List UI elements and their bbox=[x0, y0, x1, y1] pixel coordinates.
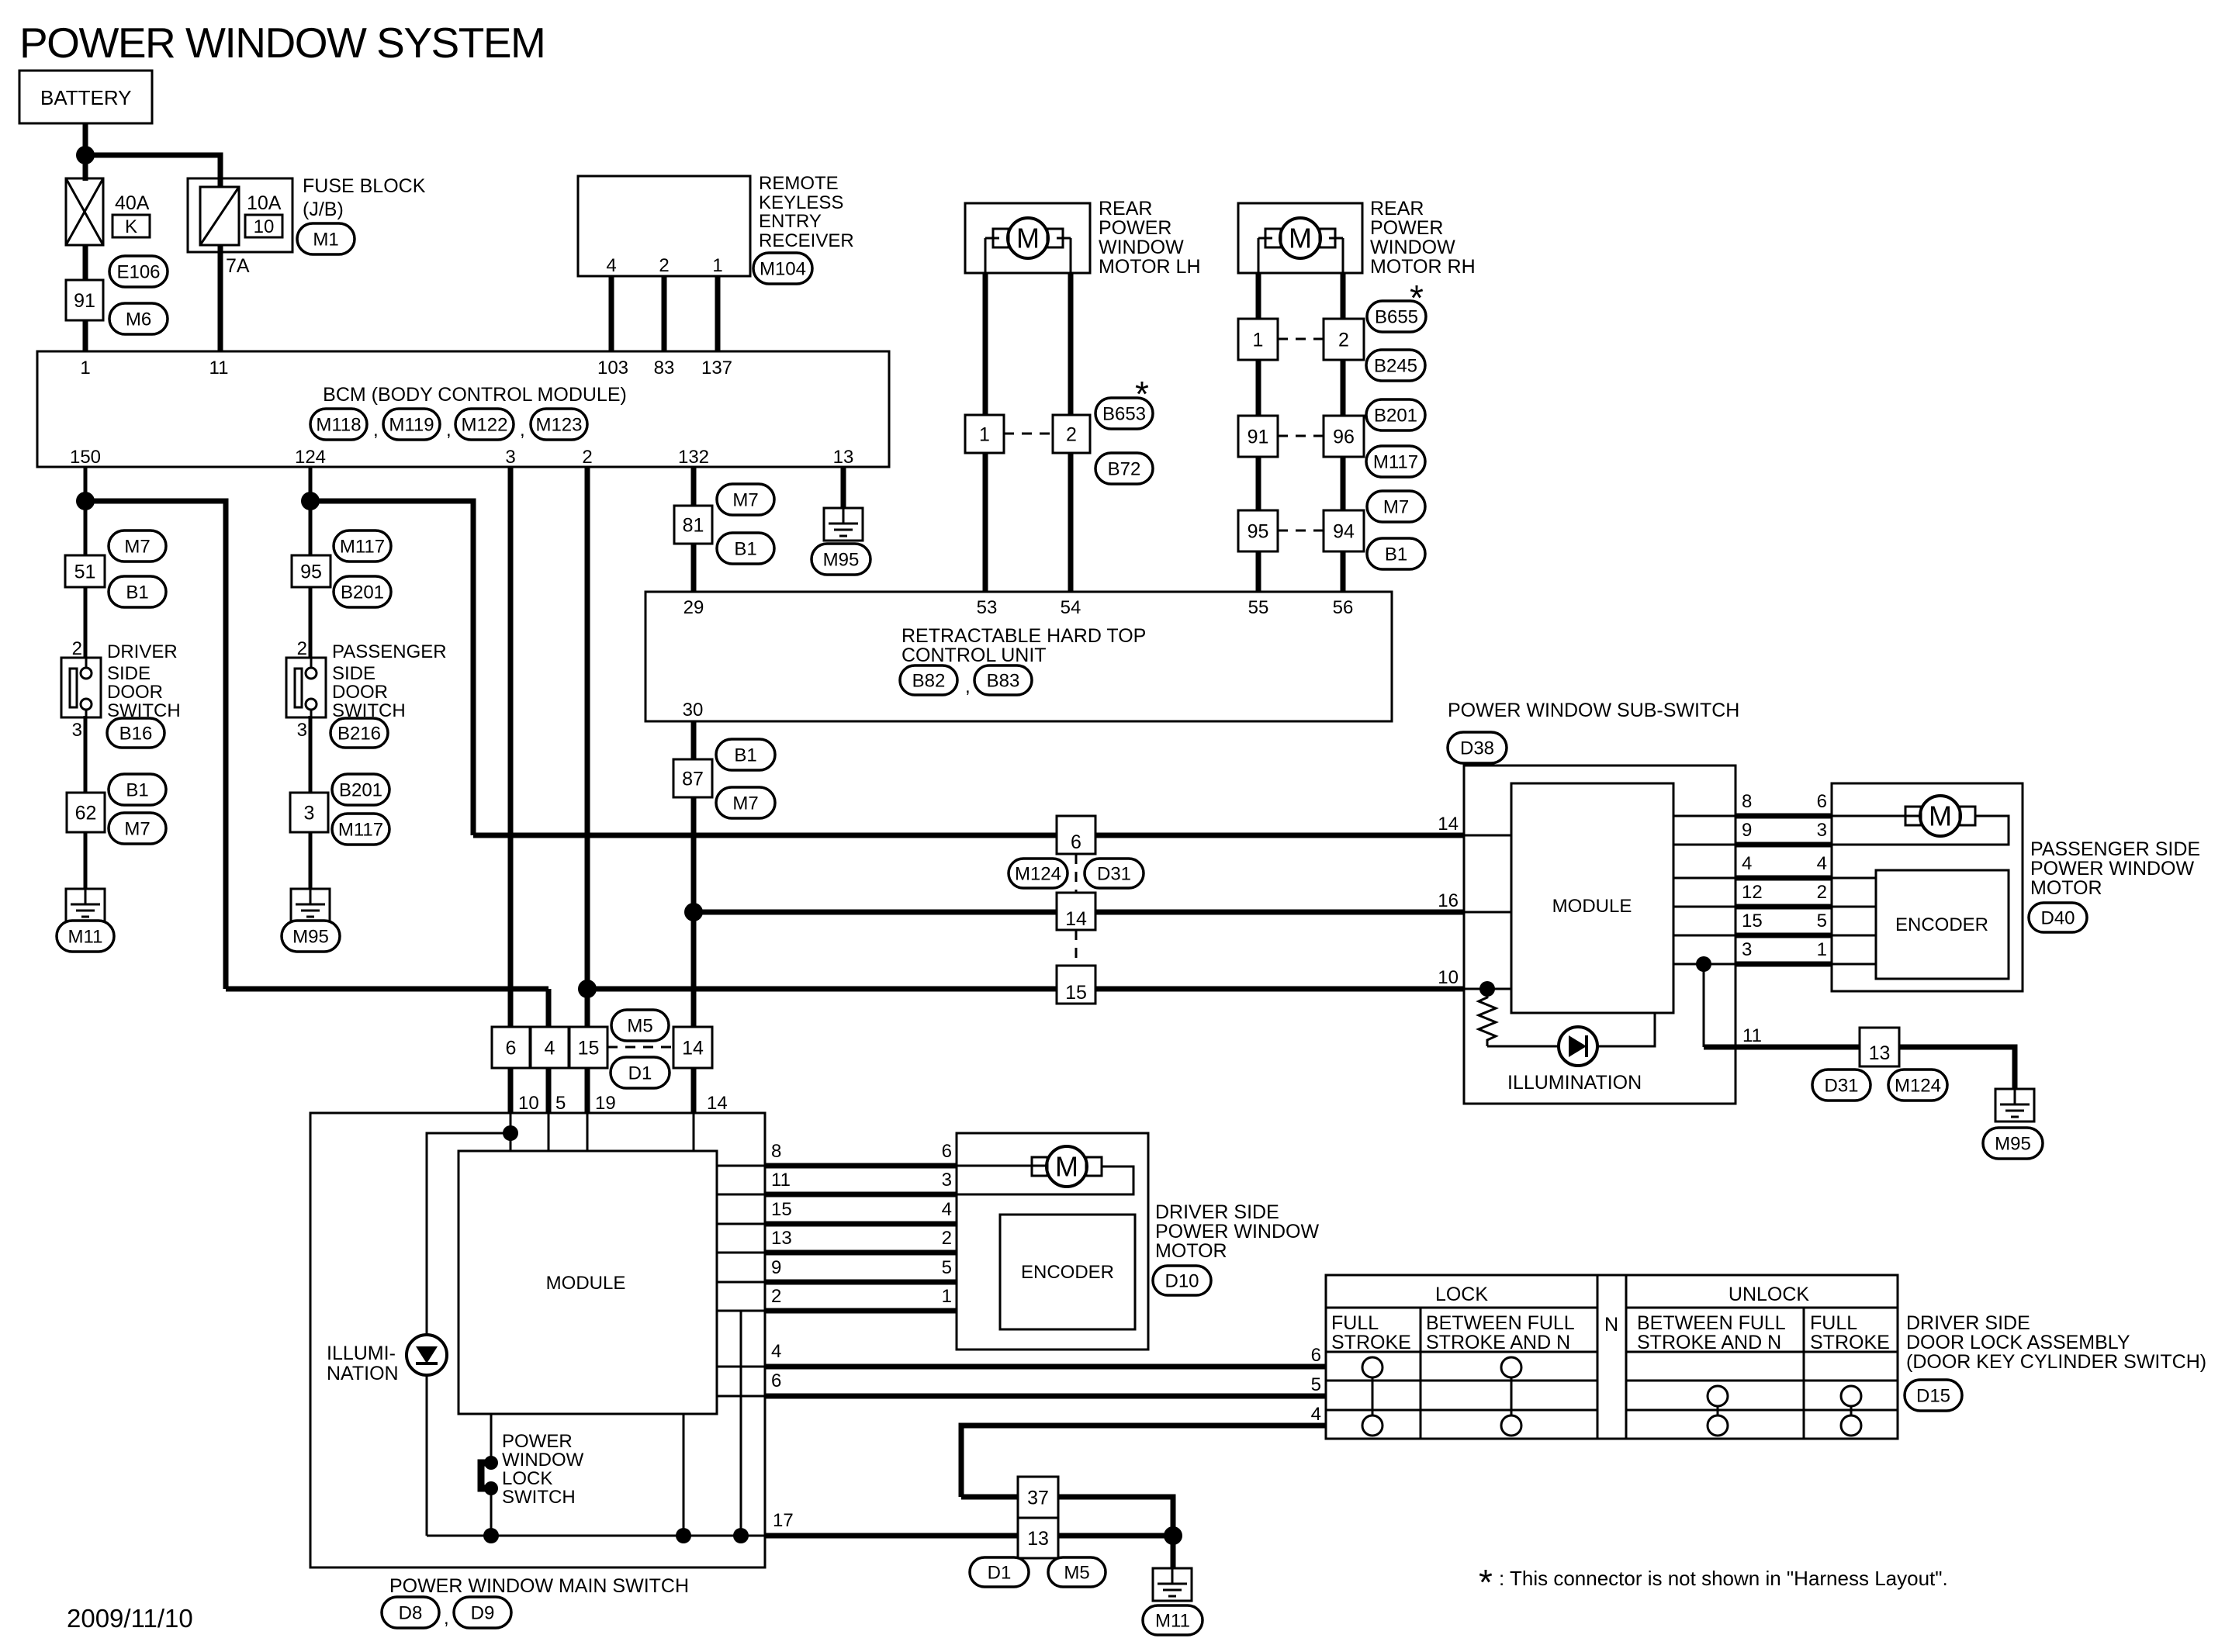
svg-text:MOTOR RH: MOTOR RH bbox=[1370, 256, 1476, 278]
svg-text:10: 10 bbox=[254, 216, 275, 237]
wire trunk y1077 124branch to subswitch pin14 bbox=[473, 833, 1464, 838]
svg-text:56: 56 bbox=[1333, 597, 1354, 618]
svg-text:M: M bbox=[1016, 223, 1040, 254]
wire main pin 2 to motor 1 bbox=[765, 1308, 957, 1314]
connector B201 bbox=[1366, 399, 1425, 430]
svg-text:MOTOR: MOTOR bbox=[1155, 1240, 1227, 1262]
connector 6 box mid bbox=[492, 1027, 530, 1068]
svg-text:1: 1 bbox=[979, 423, 990, 445]
connector 94 box RH bbox=[1324, 510, 1364, 551]
svg-text:MOTOR: MOTOR bbox=[2030, 877, 2102, 899]
svg-text:M104: M104 bbox=[760, 258, 806, 279]
svg-text:M117: M117 bbox=[1373, 451, 1418, 472]
connector 4 box mid bbox=[531, 1027, 569, 1068]
svg-text:11: 11 bbox=[771, 1170, 791, 1191]
svg-text:2: 2 bbox=[942, 1228, 952, 1249]
svg-text:M122: M122 bbox=[461, 414, 507, 435]
wire 37 to gnd node bbox=[1058, 1497, 1173, 1536]
connector E106 bbox=[109, 256, 168, 287]
svg-text:2: 2 bbox=[1338, 329, 1349, 351]
wire 62 to ground bbox=[84, 832, 88, 889]
svg-text:11: 11 bbox=[209, 358, 229, 378]
connector D15 bbox=[1905, 1380, 1962, 1411]
LED illumination sub bbox=[1559, 1027, 1597, 1066]
passenger power window motor box bbox=[1832, 783, 2023, 991]
wire motor main row2 path bbox=[957, 1166, 1133, 1194]
svg-text:B653: B653 bbox=[1102, 403, 1146, 424]
remote keyless entry receiver box bbox=[578, 176, 750, 276]
connector 14 box trunk bbox=[1057, 893, 1095, 930]
node gnd junction bbox=[1164, 1526, 1182, 1545]
svg-text:4: 4 bbox=[1742, 853, 1752, 874]
svg-text:E106: E106 bbox=[116, 261, 160, 282]
svg-text:MOTOR LH: MOTOR LH bbox=[1099, 256, 1201, 278]
wire fuse to 91 bbox=[83, 245, 88, 280]
svg-text:2: 2 bbox=[659, 255, 669, 276]
svg-text:14: 14 bbox=[1438, 814, 1459, 835]
svg-text:POWER: POWER bbox=[1370, 217, 1443, 239]
connector 95 box bbox=[292, 555, 330, 587]
connector 91 box RH bbox=[1238, 416, 1278, 457]
connector 2 box LH bbox=[1053, 415, 1090, 453]
rear power window motor RH box bbox=[1238, 203, 1362, 273]
wire bottom bus bbox=[427, 1535, 765, 1537]
svg-text:REMOTE: REMOTE bbox=[759, 173, 839, 194]
connector M117 bbox=[334, 531, 391, 562]
connector B1 bbox=[716, 739, 775, 770]
svg-text:STROKE: STROKE bbox=[1331, 1332, 1411, 1353]
svg-text:15: 15 bbox=[578, 1037, 600, 1059]
connector M7 bbox=[717, 484, 774, 515]
wire sub module row 9 to edge bbox=[1673, 844, 1735, 846]
wire branch 124 to x610 bbox=[310, 501, 473, 835]
table subheader bottom L bbox=[1326, 1351, 1597, 1353]
svg-text:1: 1 bbox=[1817, 939, 1827, 960]
wire 91 to 95 bbox=[1256, 457, 1261, 510]
connector M124 bbox=[1888, 1070, 1947, 1101]
connector 1 box RH bbox=[1238, 319, 1278, 360]
svg-text:,: , bbox=[446, 420, 452, 441]
svg-text:10: 10 bbox=[518, 1093, 539, 1114]
svg-text:POWER: POWER bbox=[1099, 217, 1171, 239]
connector 62 box bbox=[67, 793, 105, 832]
svg-text:51: 51 bbox=[74, 561, 96, 582]
svg-text:FUSE BLOCK: FUSE BLOCK bbox=[303, 175, 426, 197]
svg-text:M95: M95 bbox=[1995, 1133, 2031, 1154]
table vertical lock div bbox=[1420, 1308, 1422, 1439]
wire main module row 8 bbox=[717, 1165, 765, 1167]
svg-text:MODULE: MODULE bbox=[546, 1273, 626, 1294]
connector 96 box RH bbox=[1324, 416, 1364, 457]
wire LH2 to RHTCU54 bbox=[1068, 453, 1074, 592]
connector M124 bbox=[1009, 859, 1068, 888]
svg-text:5: 5 bbox=[1817, 911, 1827, 931]
svg-text:M123: M123 bbox=[535, 414, 582, 435]
wire sub module row 15 to edge bbox=[1673, 935, 1735, 937]
fuse 10A symbol bbox=[200, 187, 239, 245]
svg-text:3: 3 bbox=[505, 447, 515, 468]
wire receiver pin2 to BCM 83 bbox=[662, 276, 667, 351]
svg-text:STROKE AND N: STROKE AND N bbox=[1426, 1332, 1570, 1353]
svg-text:B16: B16 bbox=[119, 723, 153, 744]
connector K box bbox=[112, 215, 150, 237]
table vertical N left bbox=[1597, 1275, 1599, 1439]
svg-text:N: N bbox=[1604, 1314, 1618, 1336]
svg-text:D40: D40 bbox=[2040, 907, 2075, 928]
svg-text:10A: 10A bbox=[247, 192, 282, 214]
svg-text:ENCODER: ENCODER bbox=[1895, 914, 1988, 935]
svg-text:M7: M7 bbox=[1383, 496, 1409, 517]
connector D10 bbox=[1153, 1266, 1211, 1295]
wire sub module row 4 to edge bbox=[1673, 877, 1735, 880]
wire main module row 9 bbox=[717, 1281, 765, 1284]
svg-text:REAR: REAR bbox=[1370, 198, 1424, 219]
wire main pin 8 to motor 6 bbox=[765, 1163, 957, 1169]
connector B82 bbox=[900, 665, 957, 695]
wire branch 150 to x291 bbox=[85, 501, 226, 989]
svg-text:UNLOCK: UNLOCK bbox=[1729, 1284, 1810, 1305]
wire key cyl row4 bbox=[961, 1426, 1326, 1497]
connector 37 box bbox=[1018, 1477, 1058, 1518]
wire 3box to ground bbox=[309, 832, 313, 889]
wire switch to 62 bbox=[84, 716, 88, 793]
connector M117 bbox=[332, 814, 389, 845]
svg-text:17: 17 bbox=[773, 1510, 794, 1531]
svg-text:LOCK: LOCK bbox=[502, 1468, 552, 1489]
svg-text:PASSENGER SIDE: PASSENGER SIDE bbox=[2030, 838, 2200, 860]
svg-text:DOOR: DOOR bbox=[107, 682, 163, 703]
connector M117 bbox=[1366, 446, 1425, 477]
wire 13box to gnd node bbox=[1058, 1533, 1173, 1539]
svg-text:POWER WINDOW SYSTEM: POWER WINDOW SYSTEM bbox=[19, 19, 545, 67]
svg-text:4: 4 bbox=[1311, 1404, 1321, 1425]
wire to 37 box bbox=[961, 1495, 1018, 1500]
svg-text:6: 6 bbox=[1817, 791, 1827, 812]
svg-text:M119: M119 bbox=[389, 414, 434, 435]
node illumination tap bbox=[1479, 981, 1495, 997]
svg-text:RECEIVER: RECEIVER bbox=[759, 230, 854, 251]
connector M11 bbox=[1143, 1605, 1203, 1635]
wire main row6 lock bbox=[717, 1395, 765, 1398]
wire pin10 to module bbox=[1464, 988, 1511, 990]
wire to ground M11 bbox=[1171, 1536, 1176, 1568]
svg-text:13: 13 bbox=[1869, 1042, 1891, 1064]
svg-text:,: , bbox=[373, 420, 379, 441]
svg-text:54: 54 bbox=[1061, 597, 1081, 618]
wire 15box to main switch bbox=[585, 1068, 590, 1113]
wire 6box to main switch bbox=[508, 1068, 514, 1113]
ground M11 bbox=[66, 889, 105, 921]
wire BCM2 down to connector 15 bbox=[585, 467, 590, 1027]
svg-text:DOOR: DOOR bbox=[332, 682, 388, 703]
svg-text:9: 9 bbox=[771, 1257, 781, 1278]
svg-text:,: , bbox=[965, 676, 971, 697]
dashed connector pair RH1 bbox=[1278, 338, 1324, 340]
connector 13 box bbox=[1860, 1028, 1899, 1066]
wire 94 to RHTCU56 bbox=[1341, 551, 1346, 592]
svg-text:83: 83 bbox=[654, 358, 675, 378]
svg-text:M: M bbox=[1289, 223, 1312, 254]
svg-text:(J/B): (J/B) bbox=[303, 199, 344, 220]
svg-text:,: , bbox=[520, 420, 525, 441]
wire sub module row 3 to edge bbox=[1673, 963, 1735, 966]
table header line UNLOCK bbox=[1626, 1307, 1898, 1309]
svg-text:ENTRY: ENTRY bbox=[759, 211, 822, 232]
connector D31 bbox=[1812, 1070, 1870, 1101]
svg-text:9: 9 bbox=[1742, 820, 1752, 841]
connector D1 bbox=[611, 1057, 670, 1088]
svg-text:2: 2 bbox=[1817, 882, 1827, 903]
svg-text:D31: D31 bbox=[1097, 863, 1131, 884]
wire module to lock switch bbox=[490, 1414, 493, 1463]
svg-text:STROKE AND N: STROKE AND N bbox=[1637, 1332, 1781, 1353]
svg-text:POWER: POWER bbox=[502, 1431, 573, 1452]
svg-text:ILLUMINATION: ILLUMINATION bbox=[1507, 1072, 1642, 1094]
connector D38 bbox=[1448, 732, 1507, 763]
svg-text:DRIVER: DRIVER bbox=[107, 641, 178, 662]
resistor R-illum bbox=[1479, 989, 1496, 1046]
svg-text:M5: M5 bbox=[627, 1015, 652, 1036]
svg-text:D15: D15 bbox=[1916, 1385, 1950, 1406]
dashed connector pair RH3 bbox=[1278, 530, 1324, 532]
connector M104 bbox=[753, 253, 812, 284]
connector B1 bbox=[109, 576, 166, 607]
svg-text:M117: M117 bbox=[340, 536, 385, 557]
wire trunk y1275 pin2 to subswitch pin10 bbox=[587, 987, 1464, 992]
fusible link 40A K bbox=[66, 178, 103, 245]
svg-text:6: 6 bbox=[1071, 831, 1081, 853]
svg-text:M95: M95 bbox=[823, 549, 860, 570]
wire RH2 to 96 bbox=[1341, 360, 1346, 416]
svg-text:M11: M11 bbox=[68, 926, 103, 947]
wire illum branch bbox=[427, 1133, 510, 1335]
connector M7 bbox=[716, 787, 775, 818]
svg-text:D31: D31 bbox=[1824, 1075, 1858, 1096]
svg-text:2: 2 bbox=[582, 447, 592, 468]
driver power window motor box bbox=[957, 1133, 1148, 1350]
connector 2 box RH bbox=[1324, 319, 1364, 360]
svg-text:BCM (BODY CONTROL MODULE): BCM (BODY CONTROL MODULE) bbox=[323, 384, 627, 406]
connector M6 bbox=[109, 303, 168, 334]
table vertical unlock div bbox=[1803, 1308, 1805, 1439]
wire receiver pin1 to BCM 137 bbox=[715, 276, 721, 351]
driver side door switch S1 bbox=[61, 658, 101, 717]
svg-text:B201: B201 bbox=[1374, 405, 1417, 426]
svg-text:150: 150 bbox=[70, 447, 101, 468]
connector 15 box mid bbox=[569, 1027, 607, 1068]
svg-text:M118: M118 bbox=[316, 414, 361, 435]
wire trunk y1176 pin30 to subswitch pin16 bbox=[694, 910, 1464, 915]
main switch module box bbox=[459, 1151, 717, 1414]
wire pin17 bbox=[765, 1533, 1018, 1539]
wire BCM124 down bbox=[309, 467, 313, 555]
connector 14 box mid bbox=[673, 1027, 712, 1068]
wire BCM3 down to connector 6 bbox=[508, 467, 514, 1027]
wire BCM132 down bbox=[691, 467, 697, 506]
connector D1 bbox=[970, 1557, 1029, 1587]
ground M11 main bbox=[1153, 1568, 1192, 1601]
wire branch to fuse block bbox=[85, 155, 220, 187]
svg-text:3: 3 bbox=[297, 720, 307, 741]
svg-text:M124: M124 bbox=[1895, 1075, 1941, 1096]
svg-text:B1: B1 bbox=[734, 745, 756, 766]
connector B1 bbox=[1367, 538, 1425, 569]
svg-text:95: 95 bbox=[1248, 520, 1269, 542]
switch contacts lock full bbox=[1362, 1357, 1383, 1377]
svg-text:1: 1 bbox=[1253, 329, 1264, 351]
svg-text:10: 10 bbox=[1438, 967, 1459, 988]
svg-text:B83: B83 bbox=[987, 670, 1020, 691]
wire 51 to door switch bbox=[84, 587, 88, 659]
svg-text:D38: D38 bbox=[1460, 738, 1494, 759]
svg-text:1: 1 bbox=[942, 1286, 952, 1307]
power window main switch box bbox=[310, 1113, 765, 1567]
wire fuse block to BCM pin 11 bbox=[218, 245, 223, 351]
wire 13 box to ground bbox=[1899, 1047, 2015, 1089]
svg-text:M117: M117 bbox=[338, 819, 383, 840]
svg-text:D1: D1 bbox=[628, 1063, 652, 1083]
svg-text:55: 55 bbox=[1248, 597, 1269, 618]
svg-text:6: 6 bbox=[942, 1141, 952, 1162]
svg-text:MODULE: MODULE bbox=[1552, 896, 1632, 917]
wire lock switch to bus bbox=[490, 1488, 493, 1536]
svg-text:14: 14 bbox=[1065, 908, 1087, 930]
svg-text:WINDOW: WINDOW bbox=[1099, 237, 1184, 258]
ground M95 bbox=[291, 889, 330, 921]
connector B655 bbox=[1367, 301, 1426, 332]
svg-text:BATTERY: BATTERY bbox=[40, 86, 132, 109]
wire BCM150 down bbox=[84, 467, 88, 555]
svg-text:PASSENGER: PASSENGER bbox=[332, 641, 447, 662]
svg-text:3: 3 bbox=[942, 1170, 952, 1191]
svg-text:1: 1 bbox=[80, 358, 90, 378]
connector 3 box bbox=[290, 793, 328, 832]
svg-text:CONTROL UNIT: CONTROL UNIT bbox=[901, 645, 1047, 666]
wire main pin 11 to motor 3 bbox=[765, 1192, 957, 1198]
svg-text:2: 2 bbox=[297, 638, 307, 659]
svg-text:M124: M124 bbox=[1015, 863, 1061, 884]
svg-text:B216: B216 bbox=[337, 723, 381, 744]
svg-text:SIDE: SIDE bbox=[107, 663, 151, 684]
svg-text:M5: M5 bbox=[1064, 1562, 1089, 1583]
svg-text:6: 6 bbox=[506, 1037, 517, 1059]
BCM (body control module) box U-BCM bbox=[37, 351, 889, 467]
connector B216 bbox=[330, 718, 388, 748]
svg-text:DOOR LOCK ASSEMBLY: DOOR LOCK ASSEMBLY bbox=[1906, 1332, 2130, 1353]
wire receiver pin4 to BCM 103 bbox=[609, 276, 614, 351]
svg-text:2: 2 bbox=[771, 1286, 781, 1307]
svg-text:137: 137 bbox=[701, 358, 732, 378]
connector D31 bbox=[1085, 859, 1144, 888]
svg-text:5: 5 bbox=[942, 1257, 952, 1278]
dashed connector pair RH2 bbox=[1278, 435, 1324, 437]
motor M main bbox=[1047, 1146, 1087, 1187]
wire sub module row 8 to edge bbox=[1673, 815, 1735, 817]
wire LED down bbox=[426, 1375, 428, 1536]
svg-text:D9: D9 bbox=[471, 1602, 495, 1623]
table subheader bottom R bbox=[1626, 1351, 1898, 1353]
wire 95 to RHTCU55 bbox=[1256, 551, 1261, 592]
svg-text:M95: M95 bbox=[292, 926, 329, 947]
svg-text:4: 4 bbox=[942, 1199, 952, 1220]
connector B83 bbox=[974, 665, 1032, 695]
node enc gnd bbox=[733, 1528, 749, 1543]
connector M7 bbox=[109, 813, 166, 844]
wire motor row1 bbox=[1832, 815, 1920, 817]
wire main row4 lock bbox=[717, 1366, 765, 1368]
dashed 6 to 14 bbox=[1075, 854, 1078, 893]
connector M123 bbox=[531, 409, 587, 440]
wire motor row2 path bbox=[1832, 816, 2009, 845]
svg-text:4: 4 bbox=[606, 255, 616, 276]
wire enc row6 bbox=[1832, 963, 1876, 966]
connector B16 bbox=[107, 718, 164, 748]
svg-text:62: 62 bbox=[75, 802, 97, 824]
wire 91 to BCM pin 1 bbox=[83, 320, 88, 351]
wire RH motor pin1 down bbox=[1256, 273, 1261, 319]
connector B653 bbox=[1095, 398, 1153, 429]
connector M1 bbox=[297, 223, 355, 254]
power window sub-switch box bbox=[1464, 766, 1735, 1104]
svg-text:5: 5 bbox=[555, 1093, 566, 1114]
table row line2 L bbox=[1326, 1409, 1597, 1412]
wire main module row 13 bbox=[717, 1252, 765, 1254]
connector B72 bbox=[1095, 453, 1153, 484]
node lock bottom bbox=[483, 1528, 499, 1543]
svg-text:91: 91 bbox=[74, 290, 95, 312]
svg-text:4: 4 bbox=[545, 1037, 555, 1059]
svg-text:13: 13 bbox=[771, 1228, 792, 1249]
svg-text:4: 4 bbox=[1817, 853, 1827, 874]
svg-text:POWER WINDOW: POWER WINDOW bbox=[2030, 858, 2194, 880]
svg-text:WINDOW: WINDOW bbox=[502, 1450, 584, 1471]
svg-text:1: 1 bbox=[712, 255, 722, 276]
svg-text:WINDOW: WINDOW bbox=[1370, 237, 1455, 258]
svg-text:D8: D8 bbox=[399, 1602, 423, 1623]
svg-text:15: 15 bbox=[771, 1199, 792, 1220]
wire main pin 13 to motor 2 bbox=[765, 1250, 957, 1256]
svg-text:DRIVER SIDE: DRIVER SIDE bbox=[1155, 1201, 1279, 1223]
svg-text:M11: M11 bbox=[1155, 1610, 1190, 1631]
svg-text:*: * bbox=[1479, 1562, 1493, 1602]
wire LED to module bottom bbox=[1597, 1013, 1655, 1046]
wire BCM13 to ground bbox=[841, 467, 846, 508]
door lock table box bbox=[1326, 1275, 1898, 1439]
connector 87 box bbox=[673, 759, 712, 797]
svg-text:B1: B1 bbox=[126, 779, 148, 800]
switch contacts unlock between bbox=[1708, 1386, 1728, 1406]
svg-text:7A: 7A bbox=[226, 255, 250, 277]
svg-text:M7: M7 bbox=[732, 793, 758, 814]
svg-text:M7: M7 bbox=[732, 489, 758, 510]
svg-text:12: 12 bbox=[1742, 882, 1763, 903]
svg-text:40A: 40A bbox=[115, 192, 150, 214]
table header line LOCK bbox=[1326, 1307, 1597, 1309]
svg-text:5: 5 bbox=[1311, 1374, 1321, 1395]
passenger side door switch S2 bbox=[286, 658, 326, 717]
wire main module row 11 bbox=[717, 1194, 765, 1196]
wire pin16 to module bbox=[1464, 911, 1511, 914]
svg-text:6: 6 bbox=[771, 1370, 781, 1391]
svg-text:LOCK: LOCK bbox=[1435, 1284, 1488, 1305]
svg-text:FULL: FULL bbox=[1810, 1312, 1857, 1334]
switch contacts unlock full bbox=[1841, 1386, 1861, 1406]
svg-text:3: 3 bbox=[1742, 939, 1752, 960]
svg-text:4: 4 bbox=[771, 1341, 781, 1362]
svg-text:BETWEEN FULL: BETWEEN FULL bbox=[1637, 1312, 1786, 1334]
connector M11 bbox=[57, 921, 114, 952]
connector B1 bbox=[109, 774, 166, 805]
